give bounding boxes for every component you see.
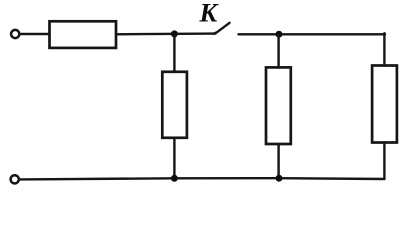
switch K (blade) <box>214 23 230 34</box>
node C (bottom junction 1) <box>171 175 178 182</box>
node D (bottom junction 2) <box>276 175 283 182</box>
terminal (bottom input) <box>11 175 19 183</box>
wire (branch 2 upper) <box>277 34 279 67</box>
resistor R2 (branch 1, vertical) <box>162 72 187 138</box>
wire (branch 1 upper) <box>173 34 175 72</box>
resistor R1 (series, horizontal) <box>50 21 117 48</box>
wire <box>239 33 386 35</box>
wire (branch 3 upper) <box>383 33 385 65</box>
node A (top junction 1) <box>171 30 178 37</box>
resistor R4 (branch 3, vertical) <box>372 66 397 143</box>
wire (bottom rail) <box>19 178 384 179</box>
wire (branch 2 lower) <box>277 144 279 178</box>
wire <box>116 32 216 35</box>
resistor R3 (branch 2, vertical) <box>266 67 291 144</box>
svg-text:K: K <box>199 0 220 28</box>
terminal (top input) <box>11 30 19 38</box>
wire (branch 1 lower) <box>173 138 175 179</box>
node B (top junction 2) <box>276 31 283 38</box>
wire <box>20 33 49 35</box>
wire (branch 3 lower) <box>383 143 385 180</box>
